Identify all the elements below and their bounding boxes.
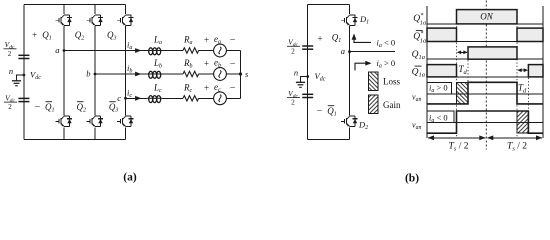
label Q2-bar (a) <box>77 102 87 114</box>
svg-text:−: − <box>230 35 236 46</box>
svg-text:2: 2 <box>291 99 295 107</box>
hatched gain area row6 <box>517 111 528 133</box>
svg-text:b: b <box>86 69 90 79</box>
svg-text:a: a <box>341 46 345 56</box>
timing right boundary <box>542 6 544 138</box>
label Q3-bar (a) <box>109 102 119 114</box>
node n with ground (a) <box>23 74 26 77</box>
svg-text:c: c <box>117 93 121 103</box>
svg-text:n: n <box>9 66 13 76</box>
svg-text:ON: ON <box>480 12 493 22</box>
inductor L_b (a) <box>147 71 163 78</box>
waveform v_an for ia>0 <box>427 82 543 104</box>
label box ia>0 <box>427 82 452 94</box>
row Q1a baseline <box>427 58 543 60</box>
wire phase a (a) <box>64 50 147 52</box>
wire (a) <box>163 73 184 75</box>
transistor Q3 with antiparallel diode (a) <box>117 15 133 25</box>
wire (a) <box>163 50 184 52</box>
capacitor C-bottom Vdc/2 (a) <box>18 98 29 101</box>
dashed centre line Ts/2 <box>485 1 487 150</box>
time axis Ts/2 spans <box>428 137 485 139</box>
wire left DC rail (a) <box>23 5 25 140</box>
current arrow i_a (a) <box>135 48 141 53</box>
label Vdc/2 top (b) <box>287 38 300 56</box>
node c (a) <box>124 97 127 100</box>
wire (a) <box>199 73 214 75</box>
row v_an (ia>0) axis <box>427 93 543 95</box>
svg-text:2: 2 <box>8 103 12 111</box>
svg-text:2: 2 <box>291 47 295 55</box>
capacitor C-bottom Vdc/2 (b) <box>302 94 313 97</box>
label Q1-bar (a) <box>45 102 55 114</box>
svg-text:Gain: Gain <box>383 100 401 110</box>
svg-text:a: a <box>55 45 59 55</box>
wire right bus to node s (a) <box>240 51 242 99</box>
row Qbar1a baseline <box>427 76 543 78</box>
dotted guide t2 <box>516 10 518 138</box>
source e_a (a) <box>214 44 227 57</box>
dotted guide t1 <box>456 10 458 138</box>
wire (a) <box>226 50 240 52</box>
timing axis left boundary <box>426 6 428 138</box>
wire top DC bus (b) <box>308 4 350 6</box>
delay arrow Td row4 <box>518 69 527 71</box>
label Vdc/2 top (a) <box>4 40 17 58</box>
wire top DC bus (a) <box>24 4 126 6</box>
capacitor C-top Vdc/2 (a) <box>18 55 29 58</box>
resistor R_b (a) <box>183 71 199 76</box>
node a (a) <box>63 49 66 52</box>
legend Gain hatched box (b) <box>368 95 378 114</box>
svg-text:Loss: Loss <box>383 77 401 87</box>
svg-text:(a): (a) <box>123 172 137 184</box>
resistor R_a (a) <box>183 48 199 53</box>
wire (a) <box>226 73 240 75</box>
annotation arrow i_a>0 (right) (b) <box>355 63 370 70</box>
transistor Q1 with diode D1 (b) <box>341 15 357 25</box>
transistor Q2-bar with antiparallel diode (a) <box>86 116 102 126</box>
dotted guide t1+Td <box>467 47 469 104</box>
label box ia<0 <box>427 111 454 122</box>
row Qbar*1a pulse left <box>427 28 457 41</box>
source e_b (a) <box>214 68 227 81</box>
label Qbar1a <box>412 66 425 78</box>
wire left DC rail (b) <box>307 5 309 140</box>
node n with ground (b) <box>306 75 309 78</box>
ground symbol (b) <box>296 82 305 87</box>
row v_an (ia<0) axis <box>427 121 543 123</box>
svg-text:Ts / 2: Ts / 2 <box>507 142 527 153</box>
transistor Q1-bar with diode D2 (b) <box>341 116 357 126</box>
row Q1a pulse <box>468 47 517 59</box>
wire bottom DC bus (b) <box>308 139 350 141</box>
transistor Q3-bar with antiparallel diode (a) <box>117 116 133 126</box>
svg-text:2: 2 <box>8 50 12 58</box>
label Q1-bar (b) <box>327 106 337 118</box>
wire (a) <box>163 97 184 99</box>
wire (a) <box>199 97 214 99</box>
svg-text:n: n <box>294 68 298 78</box>
current arrow i_c (a) <box>135 96 141 101</box>
wire phase a (b) <box>350 51 396 53</box>
ground symbol (a) <box>12 81 21 86</box>
legend Loss hatched box (b) <box>368 72 378 91</box>
wire inverter leg 3 (a) <box>125 5 127 15</box>
svg-text:+: + <box>204 59 209 69</box>
resistor R_c (a) <box>183 96 199 101</box>
delay arrow Td row3 <box>458 51 467 53</box>
wire inverter leg 2 (a) <box>94 5 96 15</box>
svg-text:−: − <box>230 59 236 70</box>
row Q*1a baseline <box>427 23 543 25</box>
svg-text:(b): (b) <box>405 173 419 185</box>
row Q*1a pulse ON <box>457 10 518 24</box>
wire (a) <box>199 50 214 52</box>
label Vdc/2 bottom (b) <box>287 89 300 107</box>
transistor Q1-bar with antiparallel diode (a) <box>55 116 71 126</box>
wire phase b (a) <box>95 73 147 75</box>
svg-text:+: + <box>317 34 322 44</box>
hatched loss area row5 <box>457 82 469 104</box>
waveform v_an for ia<0 <box>427 111 543 133</box>
svg-text:+: + <box>32 30 37 40</box>
svg-text:Ts / 2: Ts / 2 <box>449 142 469 153</box>
wire inverter leg 1 (a) <box>63 5 65 15</box>
wire (a) <box>226 97 240 99</box>
node s (a) <box>239 72 242 75</box>
svg-text:−: − <box>35 102 41 113</box>
transistor Q1 with antiparallel diode (a) <box>55 15 71 25</box>
annotation arrow i_a<0 (up) (b) <box>354 35 371 43</box>
row Qbar1a pulse right <box>528 65 543 77</box>
wire phase c (a) <box>126 97 147 99</box>
capacitor C-top Vdc/2 (b) <box>302 46 313 49</box>
dotted guide t2+Td <box>527 65 529 134</box>
svg-text:−: − <box>317 106 323 117</box>
label Qbar*1a <box>413 30 426 45</box>
row Qbar1a pulse left <box>427 65 457 77</box>
label Vdc/2 bottom (a) <box>4 93 17 111</box>
wire leg (b) <box>349 5 351 15</box>
transistor Q2 with antiparallel diode (a) <box>86 15 102 25</box>
row Qbar*1a baseline <box>427 41 543 43</box>
svg-text:+: + <box>204 83 209 93</box>
node a (b) <box>348 50 351 53</box>
inductor L_a (a) <box>147 48 163 55</box>
svg-text:+: + <box>204 35 209 45</box>
source e_c (a) <box>214 92 227 105</box>
current arrow i_b (a) <box>135 72 141 77</box>
svg-text:−: − <box>230 83 236 94</box>
row Qbar*1a pulse right <box>517 28 543 41</box>
node b (a) <box>94 73 97 76</box>
wire bottom DC bus (a) <box>24 138 126 140</box>
inductor L_c (a) <box>147 96 163 103</box>
